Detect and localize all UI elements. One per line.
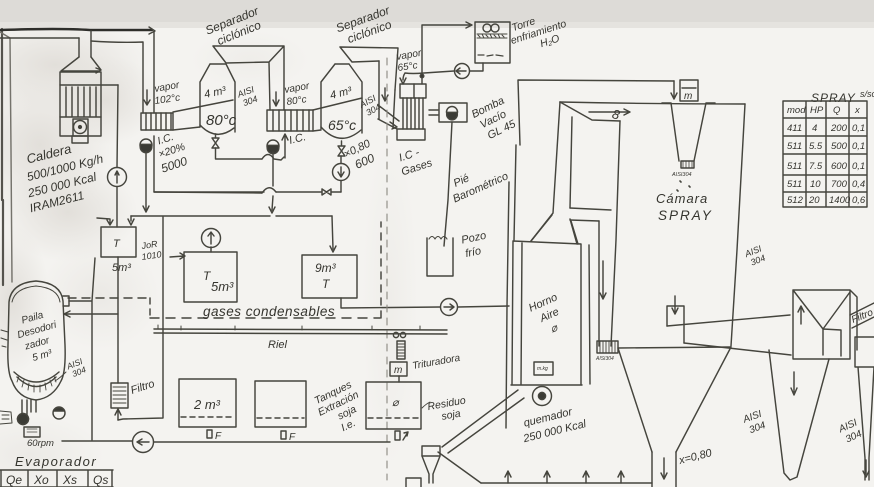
wire gauge2 down	[340, 156, 342, 192]
tank T3 9m3	[302, 255, 357, 298]
horno box	[511, 241, 590, 385]
svg-text:600: 600	[831, 161, 848, 172]
valve on header	[322, 189, 331, 195]
svg-text:s/sol: s/sol	[860, 89, 874, 99]
torre enfriamiento box	[475, 22, 510, 63]
svg-text:700: 700	[831, 179, 848, 190]
chute horno to small cyclone	[442, 390, 524, 453]
arrow vapor down IC2	[273, 92, 279, 106]
filtro cyclone	[855, 337, 874, 480]
wire filter drain	[118, 217, 163, 420]
atomizer funnel	[662, 103, 715, 161]
boiler hatch tubes	[60, 87, 101, 117]
arrow vapor down IC1	[144, 90, 150, 105]
arrow up in cyclone	[798, 306, 804, 324]
svg-text:Evaporador: Evaporador	[15, 454, 97, 469]
hump on header	[262, 188, 276, 193]
cone outlet stub	[667, 306, 684, 343]
svg-text:511: 511	[787, 179, 802, 190]
svg-text:Q: Q	[833, 105, 841, 116]
left edge scribbles	[1, 330, 8, 347]
chamber left wall	[531, 102, 560, 241]
svg-text:1400: 1400	[829, 195, 851, 206]
svg-text:Xs: Xs	[62, 473, 77, 487]
motor m box	[390, 362, 407, 376]
svg-text:511: 511	[787, 141, 802, 152]
right cyclone cone	[769, 350, 829, 480]
duct IC1 to cyclone1 slant	[173, 100, 233, 130]
wire vertical x508	[506, 182, 509, 428]
duct to IC1 upper	[91, 31, 154, 113]
wire IC1 drain to header	[154, 136, 264, 192]
svg-text:5m³: 5m³	[211, 279, 234, 294]
vapor 102 label	[154, 80, 181, 107]
label caldera	[16, 134, 112, 215]
overhead duct cyclone2 to IC3	[340, 47, 398, 90]
riel rails	[154, 329, 447, 334]
torre fill	[477, 34, 507, 38]
svg-text:5m³: 5m³	[112, 262, 131, 274]
label torre	[505, 6, 571, 58]
wire nozzle to x92	[69, 258, 95, 440]
gauge G2 circle	[333, 164, 350, 181]
conveyor bottom	[481, 482, 652, 484]
table header texts	[6, 473, 108, 487]
left scan edge	[2, 29, 3, 285]
horno top funnel inner	[531, 215, 577, 244]
corner arrow	[149, 27, 155, 34]
down duct walls	[379, 61, 395, 128]
boiler caldera body	[60, 72, 101, 136]
label separador ciclonico 2	[334, 3, 397, 49]
F mark 3	[395, 431, 400, 440]
wire m to tank	[398, 376, 400, 382]
motor M atomizer	[680, 80, 698, 101]
svg-text:HP: HP	[810, 105, 824, 116]
chute cyclone to conveyor	[438, 452, 481, 483]
tank T2 5m3	[184, 252, 237, 302]
svg-text:Riel: Riel	[268, 339, 288, 351]
wire tank1 down to filter	[117, 257, 119, 383]
valve circle right	[53, 407, 65, 419]
label IC1	[151, 128, 191, 175]
agitator gearbox	[24, 427, 40, 437]
hook arrow into tank1	[97, 218, 113, 225]
wire pump2 down	[269, 152, 275, 213]
svg-text:0,1: 0,1	[852, 123, 865, 134]
label IC3	[396, 144, 435, 179]
gases condensables dashed	[68, 297, 150, 299]
label 4m3 c1	[203, 85, 227, 101]
svg-text:7.5: 7.5	[809, 161, 823, 172]
label aisi cone left	[741, 409, 768, 437]
feed pipe to atomizer	[514, 80, 674, 240]
label camara spray	[656, 191, 713, 223]
svg-text:m.kg: m.kg	[537, 366, 548, 372]
svg-text:0,4: 0,4	[852, 179, 865, 190]
small box left	[406, 478, 421, 487]
svg-text:9m³: 9m³	[315, 261, 337, 275]
svg-text:Xo: Xo	[33, 473, 49, 487]
burner box	[73, 119, 88, 136]
wire torre pump IC3	[400, 63, 483, 84]
frame border left	[0, 32, 12, 282]
svg-text:200: 200	[830, 123, 848, 134]
svg-text:411: 411	[787, 123, 802, 134]
header y216	[131, 215, 332, 217]
filter box	[111, 383, 128, 408]
pozo frio box	[427, 238, 453, 276]
small cyclone	[422, 446, 440, 456]
channel outlet grille	[597, 341, 618, 353]
svg-text:2 m³: 2 m³	[193, 397, 221, 412]
chamber right wall	[731, 104, 745, 346]
torre fan	[483, 24, 491, 32]
svg-text:Qs: Qs	[93, 473, 108, 487]
steam pipe lower line	[0, 37, 79, 39]
condensate header y192	[154, 192, 341, 193]
tank residuo	[366, 382, 421, 429]
svg-text:0,6: 0,6	[852, 195, 866, 206]
wire up into IC2	[282, 134, 288, 158]
wire c1 drain	[216, 148, 263, 159]
boiler top line	[60, 84, 118, 86]
arrow in channel	[600, 261, 606, 299]
pump P1	[140, 139, 152, 151]
spray table grid	[783, 101, 867, 207]
pump P7	[133, 432, 154, 453]
svg-text:m: m	[684, 91, 692, 102]
svg-text:gases condensables: gases condensables	[203, 304, 335, 319]
bottom conveyor line y441	[62, 441, 390, 442]
label aisi vessel	[64, 356, 88, 380]
gauge G1 circle	[108, 168, 127, 187]
wedge into IC3	[378, 105, 399, 129]
label bomba vacio	[470, 94, 519, 144]
trolley wheels	[393, 332, 398, 337]
label paila	[13, 307, 66, 366]
label residuo	[427, 395, 469, 425]
arrow up into filter	[115, 409, 121, 420]
label aisi cone right	[836, 417, 864, 446]
svg-text:4: 4	[812, 123, 817, 134]
equal sign	[429, 110, 438, 115]
vessel nozzle right	[63, 296, 69, 306]
cyclone C2 bottom arc	[321, 127, 361, 138]
duct to cyclone right	[667, 315, 791, 355]
gauge G3 above tank2	[202, 229, 221, 248]
label JoR 1010	[140, 239, 162, 262]
wire boiler outlet down	[117, 85, 118, 167]
label AISI c2	[357, 93, 383, 119]
cyclone C1 body	[200, 64, 235, 132]
burner circle	[74, 121, 87, 134]
pump P5	[441, 299, 458, 316]
wire IC3 up to torre top	[422, 22, 472, 84]
svg-text:10: 10	[810, 179, 821, 190]
svg-text:0,1: 0,1	[852, 141, 865, 152]
trituradora screw	[397, 341, 405, 359]
air passage to channel	[570, 220, 599, 244]
hot air channel walls	[570, 121, 620, 346]
vapor 65 label	[396, 48, 423, 74]
vessel bottom dish hatched	[14, 372, 59, 387]
svg-text:Cámara: Cámara	[656, 191, 708, 206]
pump P6 vessel	[18, 414, 29, 425]
heat exchanger IC2	[267, 110, 313, 131]
corner down arrow tank1	[128, 216, 134, 225]
chamber cone	[618, 347, 731, 452]
exhaust to filtro	[850, 303, 874, 328]
svg-text:Qe: Qe	[6, 473, 22, 487]
wire arrow into vessel	[64, 311, 118, 317]
svg-text:0,1: 0,1	[852, 161, 865, 172]
label pozo frio	[460, 230, 490, 261]
arrow into tank2 left	[170, 253, 185, 259]
F mark 2	[281, 431, 286, 439]
vapor 80 label	[284, 81, 311, 108]
left edge small box	[0, 411, 12, 424]
valve V2 under cyclone2	[338, 141, 345, 156]
overhead duct cyclone1 to IC2	[213, 46, 284, 110]
svg-text:20: 20	[808, 195, 820, 206]
svg-text:65°c: 65°c	[328, 117, 356, 133]
wire gauge to tank1	[116, 187, 118, 227]
svg-text:500: 500	[831, 141, 848, 152]
vessel bottom pipes	[22, 400, 36, 415]
chamber inner corner	[560, 102, 620, 208]
pozo water	[429, 237, 447, 240]
label horno	[527, 291, 571, 340]
svg-text:F: F	[215, 431, 222, 442]
tank B	[255, 381, 306, 427]
fold line dashed	[386, 58, 388, 480]
label pie barometrico	[445, 158, 510, 206]
svg-text:AISI304: AISI304	[671, 172, 692, 178]
steam main pipe top	[0, 29, 152, 30]
arrow down duct	[382, 88, 388, 101]
svg-text:m: m	[394, 365, 402, 376]
spray chamber roof	[560, 102, 745, 104]
pump P4 cooling	[455, 64, 470, 79]
wire drain y307	[341, 298, 509, 308]
wire pie barometrico	[444, 122, 452, 246]
wire to tank3 arrow	[330, 216, 336, 252]
hump crossing	[262, 155, 284, 161]
cyclone C2 body	[321, 64, 362, 133]
chamber chute	[652, 452, 676, 487]
burner mount box	[534, 362, 553, 375]
flow arrow phi	[589, 109, 630, 115]
cyclone C1 bottom arc	[200, 125, 234, 134]
label separador ciclonico 1	[203, 3, 266, 50]
tank T1 5m3	[101, 227, 136, 257]
svg-text:511: 511	[787, 161, 802, 172]
label aisi right1	[743, 243, 768, 268]
burner quemador	[533, 387, 552, 406]
label AISI c1	[235, 84, 259, 109]
duct IC2 to cyclone2 slant	[313, 98, 362, 131]
boiler chimney funnel	[61, 57, 101, 73]
svg-text:5.5: 5.5	[809, 141, 823, 152]
cone arrow	[791, 372, 797, 395]
torre water dashes	[478, 55, 503, 56]
spray table text	[787, 105, 866, 206]
svg-text:60rpm: 60rpm	[27, 438, 54, 449]
F mark 1	[207, 430, 212, 438]
wire pump1 down arrow	[143, 151, 149, 212]
right cyclone top box	[793, 290, 857, 359]
svg-text:SPRAY: SPRAY	[658, 208, 713, 223]
duct boiler to pipe	[79, 31, 91, 57]
label tanques extraccion	[311, 378, 372, 440]
boiler pedestal	[72, 136, 88, 143]
evaporator vessel desodorizador	[8, 281, 65, 400]
heat exchanger IC1	[141, 113, 173, 130]
tank 2m3	[179, 379, 236, 427]
bomba circle	[447, 107, 458, 118]
svg-text:mod: mod	[787, 105, 806, 116]
heat exchanger IC3 gases	[400, 84, 426, 98]
valve V1 under cyclone1	[212, 134, 219, 148]
label quemador	[518, 403, 588, 445]
svg-text:80°c: 80°c	[206, 112, 237, 129]
svg-text:512: 512	[787, 195, 804, 206]
svg-text:F: F	[289, 432, 296, 443]
pump P2	[267, 140, 279, 152]
evaporator table	[0, 470, 113, 487]
svg-text:AISI304: AISI304	[595, 356, 614, 362]
bomba vacio box	[439, 103, 467, 122]
